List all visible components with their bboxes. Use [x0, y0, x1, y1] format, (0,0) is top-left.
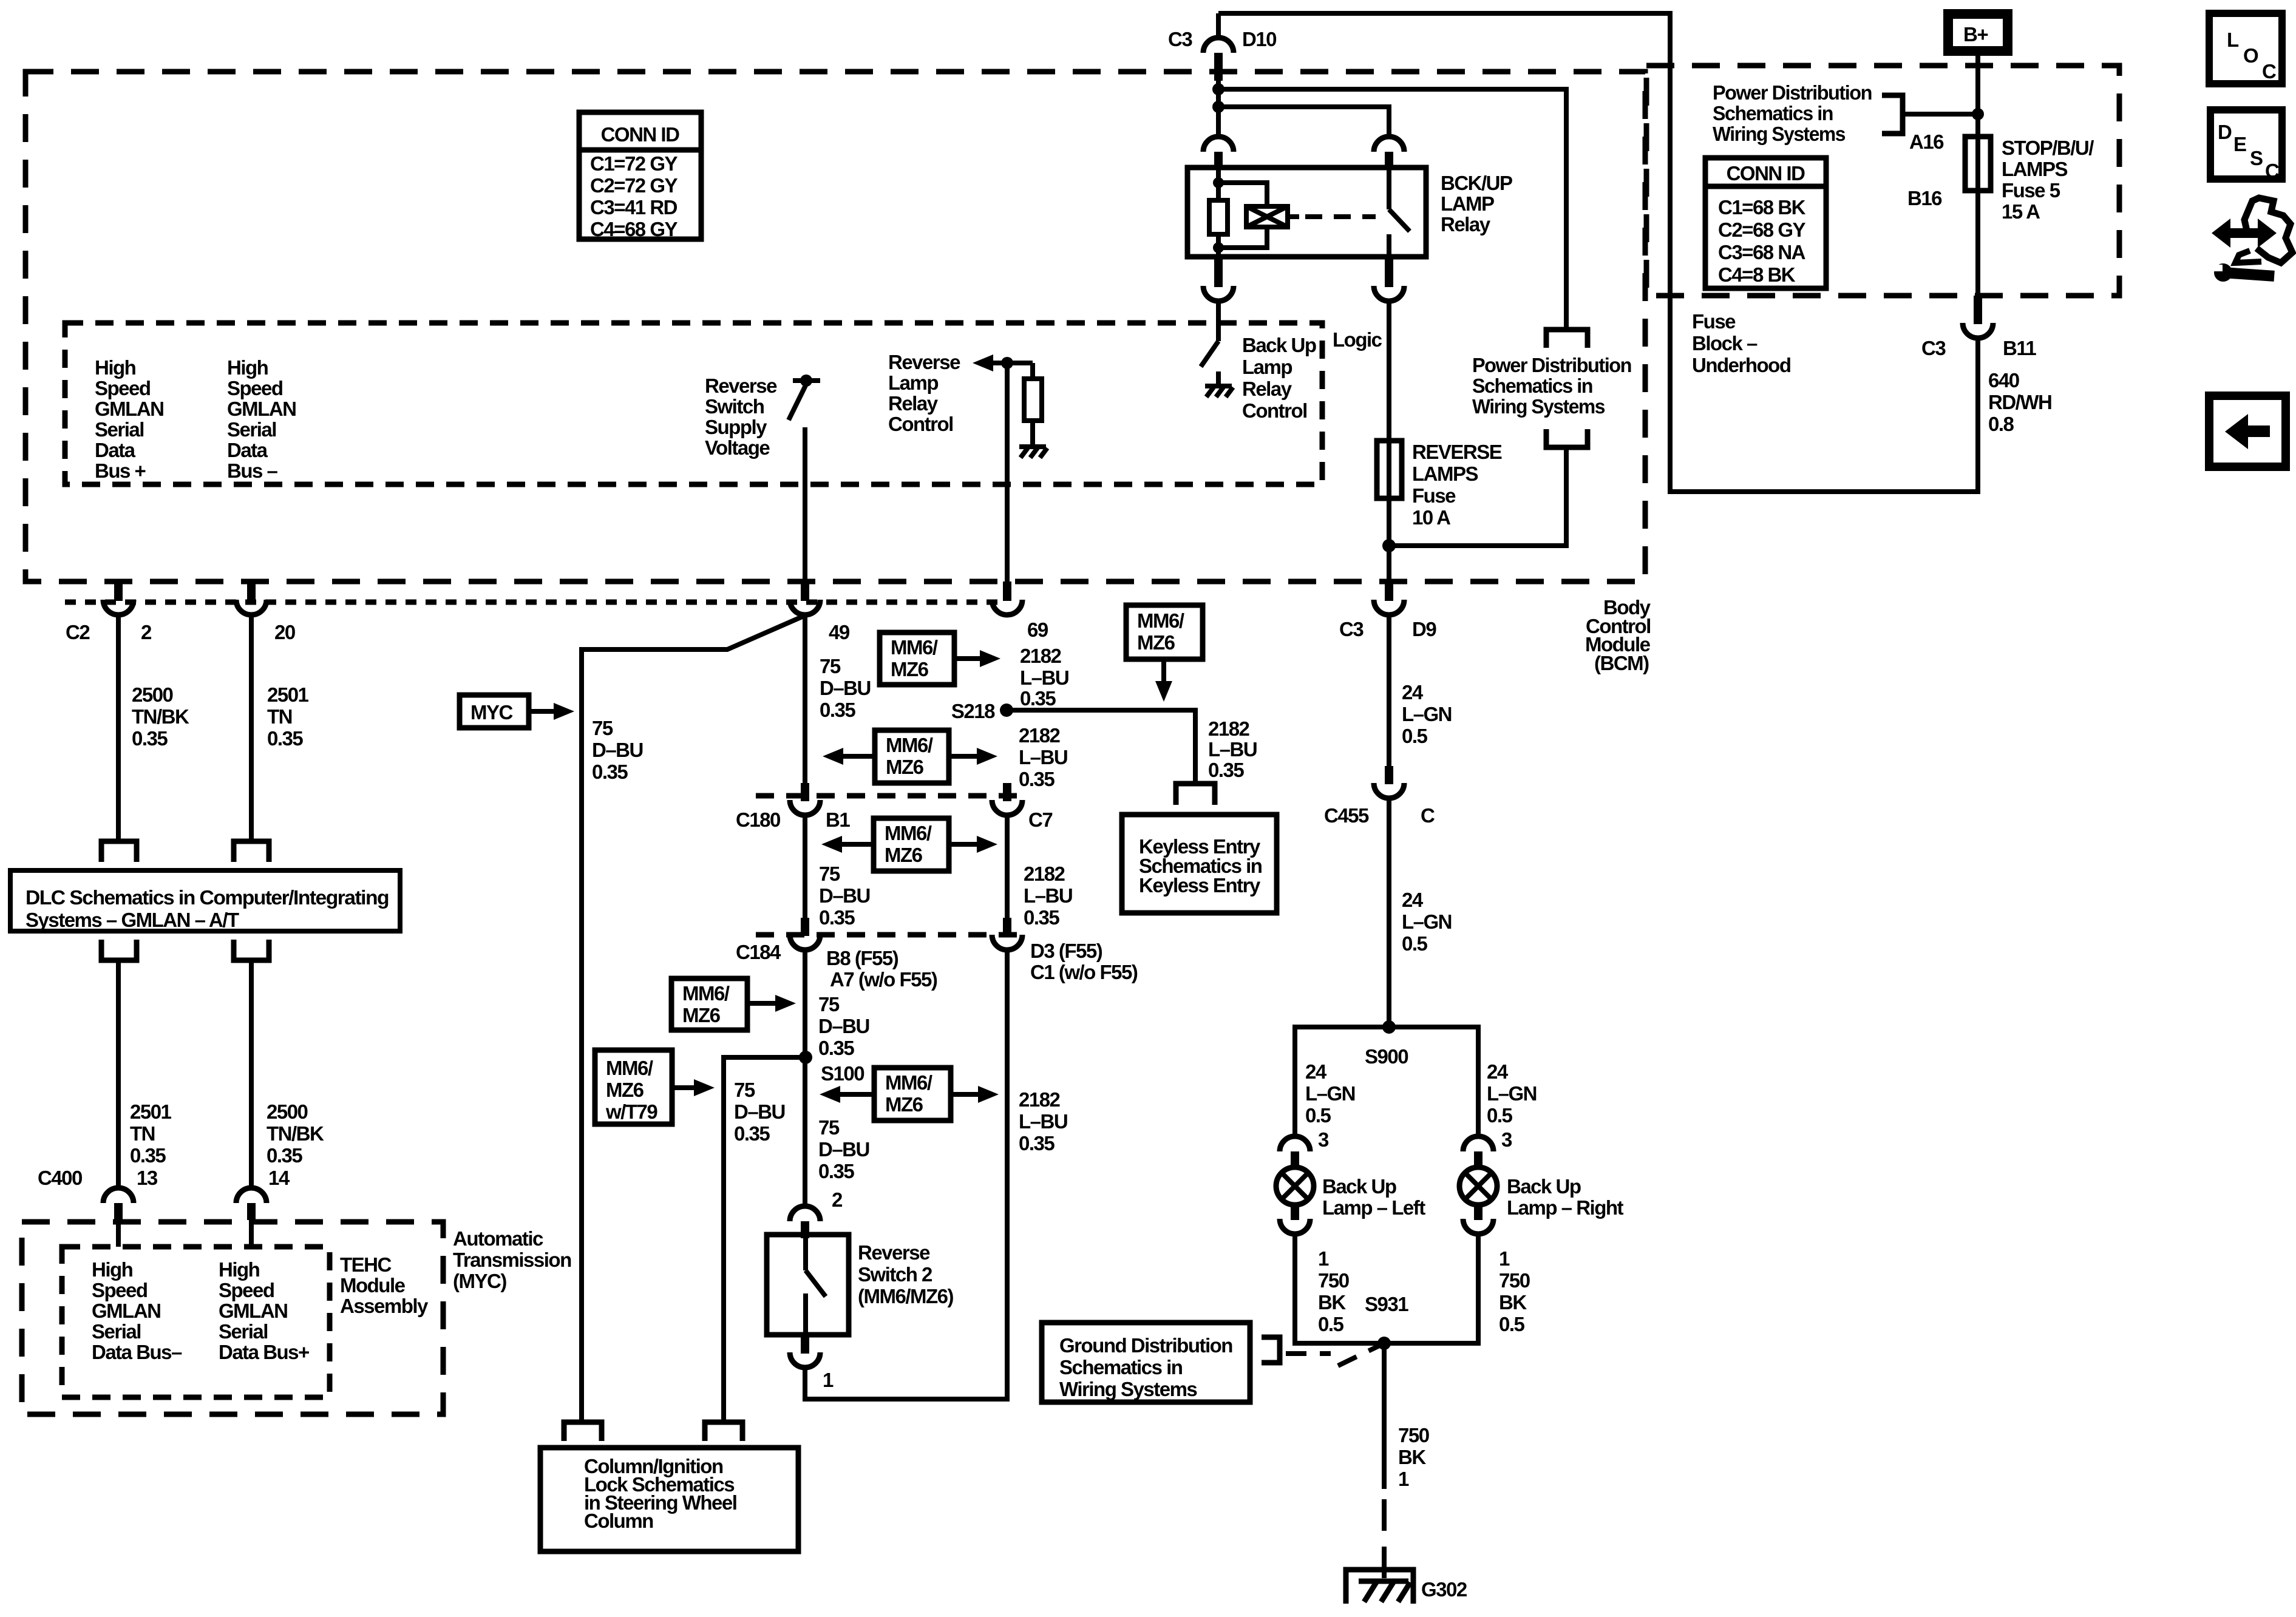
svg-text:S900: S900 — [1365, 1045, 1408, 1068]
lamp feed rails — [1295, 1027, 1478, 1135]
CONN ID table (fuse block) — [1705, 158, 1826, 288]
svg-text:C184: C184 — [736, 941, 781, 963]
svg-text:B11: B11 — [2003, 337, 2036, 359]
label High Speed GMLAN Serial Data Bus- (TEHC) — [92, 1258, 182, 1363]
Column/Ignition box — [540, 1448, 798, 1551]
wire pin49 diagonal to MYC riser — [582, 615, 805, 1422]
MM6/MZ6 tag c double arrow — [821, 818, 997, 871]
svg-text:Fuse: Fuse — [1412, 484, 1456, 507]
svg-text:1: 1 — [1499, 1247, 1510, 1270]
svg-text:A7 (w/o F55): A7 (w/o F55) — [830, 968, 937, 991]
svg-text:Keyless Entry: Keyless Entry — [1139, 874, 1261, 897]
svg-text:REVERSE: REVERSE — [1412, 441, 1502, 463]
label Reverse Switch Supply Voltage — [705, 375, 777, 459]
relay BCK/UP LAMP box — [1187, 168, 1426, 257]
node junction 1 — [1212, 83, 1224, 95]
connector C7 — [992, 783, 1052, 831]
wire junction1 to power distribution callout — [1218, 89, 1566, 330]
svg-text:24: 24 — [1402, 889, 1424, 911]
svg-text:0.5: 0.5 — [1305, 1104, 1331, 1127]
svg-text:TN: TN — [267, 705, 292, 728]
svg-text:0.35: 0.35 — [734, 1122, 770, 1145]
relay coil branch — [1218, 183, 1267, 248]
LOC icon — [2209, 13, 2282, 84]
wire pin 49 down to C180 — [803, 615, 807, 784]
svg-text:L–BU: L–BU — [1019, 746, 1067, 768]
svg-text:Speed: Speed — [95, 377, 151, 399]
svg-text:TN/BK: TN/BK — [132, 705, 189, 728]
svg-text:C400: C400 — [38, 1167, 82, 1189]
wire 2501 TN right — [249, 615, 254, 840]
label 75 D-BU 0.35 (below S100) — [818, 1116, 869, 1182]
wire 2500 TN/BK lower right — [249, 960, 254, 1187]
svg-text:High: High — [219, 1258, 260, 1281]
svg-text:750: 750 — [1499, 1269, 1530, 1292]
svg-text:C180: C180 — [736, 808, 780, 831]
svg-text:MZ6: MZ6 — [1137, 631, 1175, 654]
svg-text:Lamp – Right: Lamp – Right — [1507, 1196, 1624, 1219]
svg-text:MM6/: MM6/ — [886, 734, 933, 756]
svg-text:L–BU: L–BU — [1019, 1110, 1067, 1133]
svg-text:High: High — [227, 356, 268, 379]
BCM inner dashed function box — [65, 323, 1322, 484]
ground G302 — [1346, 1570, 1467, 1604]
svg-text:C3=68 NA: C3=68 NA — [1718, 241, 1805, 263]
wire relay to reverse lamps fuse — [1387, 301, 1391, 441]
svg-text:MZ6: MZ6 — [885, 1093, 923, 1116]
svg-text:Fuse: Fuse — [1692, 310, 1736, 333]
label 640 RD/WH 0.8 — [1988, 369, 2051, 435]
svg-text:Speed: Speed — [227, 377, 283, 399]
node S931 — [1365, 1293, 1408, 1350]
svg-text:L: L — [2227, 29, 2239, 51]
svg-text:0.35: 0.35 — [267, 1144, 302, 1167]
svg-text:C3: C3 — [1339, 618, 1364, 640]
svg-text:O: O — [2243, 44, 2258, 67]
connector C3 D10 — [1168, 13, 1276, 81]
node fuse output — [1382, 539, 1396, 552]
svg-text:640: 640 — [1988, 369, 2019, 392]
svg-text:Column: Column — [584, 1510, 653, 1532]
svg-text:C4=8 BK: C4=8 BK — [1718, 263, 1796, 286]
svg-text:MM6/: MM6/ — [885, 1071, 932, 1094]
svg-text:Block –: Block – — [1692, 332, 1758, 354]
Keyless Entry box — [1122, 815, 1277, 913]
svg-text:MZ6: MZ6 — [606, 1079, 644, 1101]
svg-text:Speed: Speed — [92, 1279, 148, 1301]
svg-text:C1 (w/o F55): C1 (w/o F55) — [1030, 961, 1138, 983]
wire reverse switch 2 return loop — [805, 950, 1007, 1399]
wire reverse switch supply voltage down to pin 49 — [803, 427, 807, 583]
svg-text:B1: B1 — [826, 808, 850, 831]
label 2182 L-BU 0.35 (below S218) — [1019, 724, 1067, 790]
connector C400 pin 14 — [236, 1167, 290, 1247]
svg-text:13: 13 — [137, 1167, 158, 1189]
relay resistor — [1209, 200, 1228, 234]
svg-text:MM6/: MM6/ — [682, 982, 730, 1005]
label 75 D-BU 0.35 (S100 branch) — [734, 1079, 785, 1145]
svg-text:Logic: Logic — [1333, 328, 1382, 351]
svg-text:C3: C3 — [1168, 28, 1192, 50]
svg-text:Back Up: Back Up — [1322, 1175, 1396, 1198]
svg-text:24: 24 — [1487, 1060, 1509, 1083]
svg-text:Automatic: Automatic — [453, 1227, 543, 1250]
label TEHC Module Assembly — [340, 1253, 429, 1317]
svg-text:0.35: 0.35 — [1208, 759, 1244, 781]
svg-text:Control: Control — [888, 413, 953, 435]
TEHC Module dashed box — [62, 1247, 330, 1397]
svg-text:High: High — [92, 1258, 133, 1281]
svg-text:C4=68 GY: C4=68 GY — [590, 218, 678, 240]
fuse block dashed box — [1646, 66, 2119, 296]
svg-text:(MYC): (MYC) — [453, 1270, 506, 1292]
svg-text:2182: 2182 — [1020, 645, 1062, 667]
label High Speed GMLAN Serial Data Bus + — [95, 356, 163, 482]
relay switch output connector — [1374, 257, 1404, 301]
svg-text:Module: Module — [340, 1274, 406, 1297]
svg-text:2182: 2182 — [1019, 1088, 1061, 1111]
svg-text:Serial: Serial — [219, 1320, 268, 1343]
svg-text:Data Bus+: Data Bus+ — [219, 1341, 309, 1363]
svg-text:LAMPS: LAMPS — [1412, 463, 1478, 485]
wire S218 to keyless entry — [1007, 710, 1195, 782]
svg-text:Speed: Speed — [219, 1279, 274, 1301]
svg-text:2500: 2500 — [132, 683, 173, 706]
svg-text:L–GN: L–GN — [1402, 910, 1452, 933]
relay actuator dashed link — [1288, 214, 1376, 219]
Reverse Switch 2 box — [767, 1235, 953, 1335]
MM6/MZ6 tag a — [880, 632, 1000, 685]
relay switch pin connector — [1374, 137, 1404, 169]
svg-text:Wiring Systems: Wiring Systems — [1059, 1378, 1197, 1400]
svg-text:STOP/B/U/: STOP/B/U/ — [2002, 137, 2094, 159]
connector D3/C1 — [992, 918, 1138, 983]
svg-text:B16: B16 — [1907, 187, 1942, 209]
svg-text:MZ6: MZ6 — [886, 756, 924, 778]
DLC box top bracket left — [101, 841, 137, 862]
B+ battery feed — [1948, 14, 2008, 51]
label 2182 L-BU 0.35 (return wire) — [1019, 1088, 1067, 1154]
label 75 D-BU 0.35 (above S100) — [818, 993, 869, 1059]
svg-text:75: 75 — [818, 993, 840, 1015]
svg-text:Schematics in: Schematics in — [1713, 102, 1833, 124]
svg-text:0.35: 0.35 — [1019, 768, 1055, 790]
svg-text:0.35: 0.35 — [130, 1144, 166, 1167]
svg-text:Data: Data — [95, 439, 136, 461]
svg-text:24: 24 — [1305, 1060, 1327, 1083]
node S100 — [799, 1051, 864, 1085]
MM6/MZ6 tag e double arrow — [820, 1068, 999, 1120]
connector pin 2 (reverse switch 2) — [790, 1206, 820, 1238]
svg-text:Supply: Supply — [705, 416, 767, 438]
wire S931 to ground — [1382, 1343, 1387, 1489]
wire B+ to fuse 5 — [1975, 51, 1980, 296]
BCM relay driver switch — [1201, 301, 1218, 385]
svg-text:TN/BK: TN/BK — [267, 1122, 324, 1145]
svg-text:LAMPS: LAMPS — [2002, 158, 2067, 180]
svg-text:S931: S931 — [1365, 1293, 1408, 1315]
svg-text:GMLAN: GMLAN — [92, 1300, 160, 1322]
svg-text:0.5: 0.5 — [1487, 1104, 1513, 1127]
label Back Up Lamp - Left — [1322, 1175, 1425, 1219]
BCM connector row dotted line — [65, 600, 1007, 605]
svg-text:C3=41 RD: C3=41 RD — [590, 196, 678, 219]
svg-text:LAMP: LAMP — [1441, 192, 1494, 215]
svg-text:GMLAN: GMLAN — [227, 398, 296, 420]
svg-text:0.35: 0.35 — [1020, 687, 1056, 710]
svg-text:Serial: Serial — [95, 418, 144, 441]
svg-text:75: 75 — [592, 717, 613, 739]
svg-text:MM6/: MM6/ — [885, 822, 932, 844]
wire C455 to S900 — [1387, 798, 1391, 1027]
svg-text:Wiring Systems: Wiring Systems — [1713, 123, 1845, 145]
svg-text:D3 (F55): D3 (F55) — [1030, 940, 1102, 962]
connector pin 1 (reverse switch 2) — [790, 1335, 834, 1391]
svg-text:75: 75 — [818, 1116, 840, 1139]
svg-text:75: 75 — [734, 1079, 755, 1101]
dashed link to S931 — [1286, 1346, 1379, 1366]
label 2182 L-BU 0.35 (pin 69 top) — [1020, 645, 1068, 710]
column/ignition bracket left — [564, 1422, 602, 1441]
svg-text:10 A: 10 A — [1412, 506, 1450, 529]
svg-text:Back Up: Back Up — [1507, 1175, 1581, 1198]
svg-text:75: 75 — [820, 655, 841, 677]
svg-text:Switch 2: Switch 2 — [858, 1263, 932, 1286]
svg-text:24: 24 — [1402, 681, 1424, 703]
resistor (reverse lamp relay pull-down) — [1024, 363, 1042, 446]
node S218 — [951, 700, 1013, 722]
wire C3/D10 to relay — [1216, 81, 1221, 136]
svg-text:Schematics in: Schematics in — [1472, 375, 1592, 397]
label 24 L-GN 0.5 (lower) — [1402, 889, 1452, 955]
arrow into Reverse Lamp Relay Control — [973, 354, 993, 371]
ground distribution bracket — [1262, 1337, 1280, 1363]
svg-text:0.5: 0.5 — [1402, 932, 1428, 955]
svg-text:Schematics in: Schematics in — [1059, 1356, 1183, 1378]
svg-text:Ground Distribution: Ground Distribution — [1059, 1334, 1232, 1357]
STOP/B/U/LAMPS fuse 5 — [1965, 137, 2094, 223]
keyless bracket — [1176, 784, 1215, 805]
label 24 L-GN 0.5 (upper) — [1402, 681, 1452, 747]
connector C2 pin 2 — [66, 581, 152, 643]
label 75 D-BU 0.35 (B1 row) — [819, 863, 870, 929]
MM6/MZ6 tag d — [671, 978, 796, 1030]
svg-text:MZ6: MZ6 — [891, 658, 929, 680]
power distribution callout brackets — [1546, 330, 1588, 348]
svg-text:Lamp: Lamp — [888, 371, 938, 394]
svg-text:Lamp: Lamp — [1242, 356, 1292, 378]
label Fuse Block - Underhood — [1692, 310, 1790, 376]
connector lamp right bottom — [1463, 1204, 1493, 1234]
svg-text:0.35: 0.35 — [1024, 906, 1059, 929]
svg-text:L–GN: L–GN — [1305, 1082, 1355, 1105]
connector C184 B8/A7 — [736, 918, 937, 991]
BCM outer dashed box (Body Control Module) — [25, 72, 1645, 581]
svg-text:69: 69 — [1027, 619, 1048, 641]
svg-text:Assembly: Assembly — [340, 1295, 429, 1317]
svg-text:0.35: 0.35 — [1019, 1132, 1055, 1154]
svg-text:Relay: Relay — [1242, 378, 1292, 400]
svg-text:B8 (F55): B8 (F55) — [826, 947, 898, 969]
svg-text:GMLAN: GMLAN — [95, 398, 163, 420]
node junction 2 — [1212, 101, 1224, 113]
svg-text:w/T79: w/T79 — [605, 1100, 657, 1123]
svg-text:1: 1 — [1398, 1468, 1409, 1490]
svg-text:Control: Control — [1242, 399, 1307, 422]
Automatic Transmission dashed box — [22, 1222, 443, 1414]
svg-text:750: 750 — [1398, 1424, 1429, 1446]
svg-text:D: D — [2218, 121, 2232, 143]
label High Speed GMLAN Serial Data Bus+ (TEHC) — [219, 1258, 309, 1363]
svg-text:0.35: 0.35 — [267, 727, 303, 750]
svg-text:CONN ID: CONN ID — [601, 123, 680, 146]
wire 2501 TN lower left — [116, 960, 121, 1187]
DLC box bottom bracket right — [234, 940, 269, 960]
svg-text:750: 750 — [1318, 1269, 1349, 1292]
svg-text:Bus +: Bus + — [95, 459, 146, 482]
wire pin 69 riser — [1005, 363, 1010, 583]
svg-text:2182: 2182 — [1208, 717, 1250, 740]
svg-text:L–BU: L–BU — [1024, 884, 1072, 907]
svg-text:C1=68 BK: C1=68 BK — [1718, 196, 1806, 219]
svg-text:Data Bus–: Data Bus– — [92, 1341, 182, 1363]
svg-text:20: 20 — [274, 621, 295, 643]
connector lamp right top — [1463, 1136, 1493, 1168]
svg-text:14: 14 — [268, 1167, 290, 1189]
svg-text:D–BU: D–BU — [592, 739, 643, 761]
node A16 feed — [1972, 108, 1984, 120]
svg-text:C3: C3 — [1921, 337, 1946, 359]
ground (resistor) — [1019, 447, 1047, 458]
svg-text:0.35: 0.35 — [818, 1160, 854, 1182]
svg-text:0.35: 0.35 — [592, 761, 628, 783]
svg-text:L–GN: L–GN — [1487, 1082, 1537, 1105]
label 750 BK 1 — [1398, 1424, 1429, 1490]
label Back Up Lamp - Right — [1507, 1175, 1624, 1219]
svg-text:C2=72 GY: C2=72 GY — [590, 174, 678, 197]
svg-text:S100: S100 — [821, 1062, 864, 1085]
connector lamp left top — [1280, 1136, 1310, 1168]
svg-text:DLC Schematics in Computer/Int: DLC Schematics in Computer/Integrating — [25, 886, 389, 909]
MM6/MZ6 tag b double arrow — [823, 730, 997, 783]
svg-text:B+: B+ — [1963, 23, 1988, 46]
svg-text:2182: 2182 — [1024, 863, 1065, 885]
label 75 D-BU 0.35 (pin 49 top) — [820, 655, 871, 721]
svg-text:(BCM): (BCM) — [1594, 652, 1649, 674]
relay switch blade — [1389, 168, 1410, 257]
svg-text:Voltage: Voltage — [705, 436, 770, 459]
svg-text:Lamp – Left: Lamp – Left — [1322, 1196, 1425, 1219]
svg-text:1: 1 — [1318, 1247, 1329, 1270]
MM6/MZ6 tag down-arrow — [1126, 605, 1203, 702]
wire S100 branch to column/ignition — [724, 1057, 806, 1422]
label High Speed GMLAN Serial Data Bus - — [227, 356, 296, 482]
wire C3/D9 to C455 — [1387, 615, 1391, 767]
connector C3 B11 — [1921, 296, 2036, 359]
svg-text:15 A: 15 A — [2002, 200, 2040, 223]
label 2182 L-BU 0.35 (keyless branch) — [1208, 717, 1257, 781]
label 1 750 BK 0.5 (left) — [1318, 1247, 1349, 1335]
label 75 D-BU 0.35 (MYC riser) — [592, 717, 643, 783]
wire 2500 TN/BK left — [116, 615, 121, 840]
svg-text:L–GN: L–GN — [1402, 703, 1452, 725]
relay coil pin connector — [1203, 137, 1234, 169]
MM6/MZ6 w/T79 tag — [595, 1050, 715, 1124]
svg-text:GMLAN: GMLAN — [219, 1300, 287, 1322]
svg-text:Serial: Serial — [227, 418, 276, 441]
svg-text:3: 3 — [1318, 1128, 1329, 1151]
svg-text:2182: 2182 — [1019, 724, 1061, 747]
svg-text:High: High — [95, 356, 136, 379]
svg-text:Wiring Systems: Wiring Systems — [1472, 395, 1605, 418]
svg-text:0.8: 0.8 — [1988, 413, 2014, 435]
svg-text:0.35: 0.35 — [820, 699, 855, 721]
wire arrow to resistor branch — [992, 361, 1033, 365]
svg-text:S: S — [2250, 147, 2263, 169]
DLC box top bracket right — [234, 841, 269, 862]
svg-text:Switch: Switch — [705, 395, 764, 418]
svg-text:Back Up: Back Up — [1242, 334, 1316, 356]
relay coil (box with X) — [1246, 206, 1288, 227]
DLC box bottom bracket left — [101, 940, 137, 960]
svg-text:BK: BK — [1318, 1291, 1346, 1314]
MYC tag — [460, 695, 574, 728]
label Back Up Lamp Relay Control — [1242, 334, 1316, 422]
DLC Schematics box — [10, 870, 400, 931]
svg-text:Relay: Relay — [888, 392, 939, 415]
connector C2 pin 20 — [236, 581, 295, 643]
svg-text:D–BU: D–BU — [734, 1100, 785, 1123]
wire C180 to C184 — [803, 815, 807, 919]
lamp return rails to S931 — [1295, 1234, 1478, 1343]
svg-text:(MM6/MZ6): (MM6/MZ6) — [858, 1285, 953, 1307]
C180 dashed row — [756, 793, 1026, 799]
svg-text:C2=68 GY: C2=68 GY — [1718, 219, 1805, 241]
back arrow icon — [2209, 396, 2286, 467]
svg-text:TEHC: TEHC — [340, 1253, 392, 1276]
svg-text:2: 2 — [832, 1188, 843, 1211]
svg-text:Reverse: Reverse — [858, 1241, 930, 1264]
svg-text:Serial: Serial — [92, 1320, 141, 1343]
svg-text:0.5: 0.5 — [1402, 725, 1428, 747]
svg-text:MM6/: MM6/ — [1137, 609, 1184, 632]
svg-text:RD/WH: RD/WH — [1988, 391, 2051, 413]
svg-text:MM6/: MM6/ — [891, 636, 938, 659]
dashed wire to G302 — [1382, 1499, 1387, 1578]
svg-text:Fuse 5: Fuse 5 — [2002, 179, 2060, 202]
wire junction2 to relay switch pin — [1218, 107, 1389, 136]
svg-text:Power Distribution: Power Distribution — [1713, 81, 1872, 104]
connector pin 49 — [790, 581, 850, 643]
svg-text:C: C — [2262, 60, 2276, 83]
svg-text:Reverse: Reverse — [705, 375, 777, 397]
column/ignition bracket right — [705, 1422, 742, 1441]
connector C180 B1 — [736, 783, 850, 831]
svg-text:1: 1 — [823, 1369, 834, 1391]
svg-text:49: 49 — [829, 621, 850, 643]
connector pin 69 — [992, 581, 1048, 641]
svg-text:D–BU: D–BU — [819, 884, 870, 907]
label Automatic Transmission (MYC) — [453, 1227, 571, 1292]
relay internal wire and nodes — [1213, 168, 1224, 257]
REVERSE LAMPS fuse — [1377, 441, 1502, 546]
relay coil output connector — [1203, 257, 1234, 301]
svg-text:Underhood: Underhood — [1692, 354, 1790, 376]
svg-text:C: C — [2265, 160, 2279, 182]
svg-text:MZ6: MZ6 — [682, 1004, 721, 1026]
svg-text:Relay: Relay — [1441, 213, 1491, 236]
label 24 L-GN 0.5 (right lamp) — [1487, 1060, 1537, 1127]
